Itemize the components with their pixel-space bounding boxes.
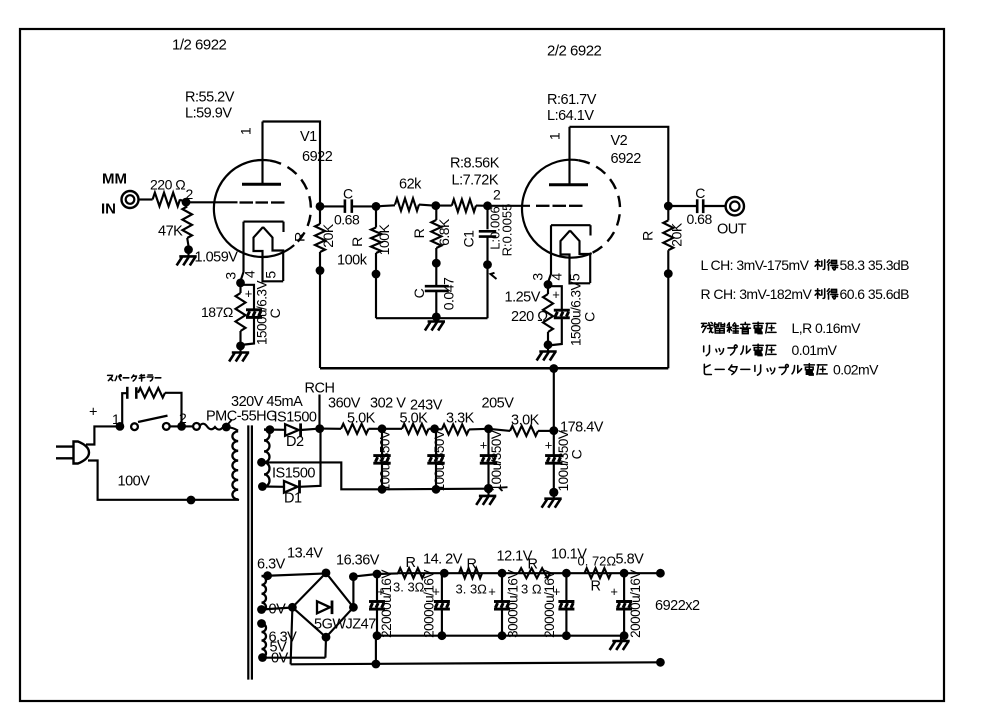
svg-text:+: +	[89, 405, 97, 421]
heater bottom rail	[291, 662, 661, 664]
HV center tap dot	[257, 458, 266, 467]
w2 top tap dot	[257, 619, 266, 628]
V1 cathode box top	[244, 221, 284, 223]
svg-text:47K: 47K	[158, 224, 183, 240]
svg-text:3. 3Ω: 3. 3Ω	[456, 582, 488, 597]
svg-text:RCH: RCH	[305, 381, 335, 397]
label C1 rot	[461, 230, 477, 248]
label hcap 4	[542, 570, 557, 638]
spark killer branch	[122, 393, 127, 426]
label 62k	[399, 177, 422, 193]
w1 top tap wire	[262, 573, 327, 576]
svg-text:3.0K: 3.0K	[511, 413, 540, 429]
V2 heater join	[570, 282, 591, 284]
label hcap 2	[422, 570, 437, 638]
resistor 20K V2	[663, 220, 673, 250]
heater cap 4 20000u/16V	[558, 573, 574, 640]
svg-text:100K: 100K	[376, 223, 392, 255]
label spark killer	[108, 375, 161, 381]
node C1 bottom dot	[483, 260, 492, 269]
node w1 top dot	[263, 571, 272, 580]
label R:55.2V	[185, 90, 235, 106]
V1 pin 4 label	[242, 270, 258, 278]
label V2	[611, 133, 628, 149]
V2 plate	[549, 127, 588, 185]
label L:59.9V	[185, 106, 232, 122]
svg-text:L,R 0.16mV: L,R 0.16mV	[792, 320, 862, 336]
switch blade	[138, 416, 168, 422]
ecap 1500u V1	[246, 310, 262, 318]
bridge R up wire	[353, 573, 398, 607]
tube V1 envelope solid arc	[214, 160, 294, 257]
svg-text:6.8K: 6.8K	[436, 218, 452, 246]
wire D1 to 360V node	[300, 429, 321, 487]
svg-text:C: C	[343, 186, 353, 202]
svg-text:C: C	[569, 449, 585, 459]
bridge B down wire	[324, 637, 327, 658]
tube V1 envelope dashed arc	[270, 161, 311, 246]
svg-text:3. 3Ω: 3. 3Ω	[393, 580, 425, 595]
svg-text:R:8.56K: R:8.56K	[450, 156, 500, 172]
wire C to 100K node	[352, 205, 376, 207]
wire 178V	[553, 369, 555, 429]
svg-text:1: 1	[238, 127, 254, 135]
bridge node B	[322, 633, 331, 642]
HV secondary winding	[264, 430, 270, 487]
svg-text:100V: 100V	[118, 474, 151, 490]
ground input	[177, 250, 197, 266]
svg-text:20000u/16V: 20000u/16V	[542, 570, 557, 638]
B+ rail	[320, 367, 668, 370]
wire jack to R220	[139, 198, 153, 200]
plus V2 cap	[552, 287, 560, 302]
V1 cathode box right stub	[282, 222, 284, 232]
ground V1 cathode	[229, 346, 249, 362]
bridge node T	[322, 569, 331, 578]
resistor 47K	[182, 207, 192, 247]
node bridge R top dot	[349, 572, 358, 581]
V2 heater left	[561, 231, 571, 285]
label R:8.56K	[450, 156, 500, 172]
label 3ohm c	[521, 582, 542, 597]
V2 pin 1 label	[547, 132, 563, 140]
svg-text:100u/350V: 100u/350V	[489, 430, 504, 491]
wire C1 to bottom rail	[486, 265, 488, 319]
ground interstage	[425, 318, 445, 330]
svg-text:5: 5	[263, 271, 279, 279]
text ripple	[704, 342, 838, 358]
V1 pin 5 label	[263, 271, 279, 279]
w2 0V wire	[263, 657, 326, 659]
label R h3	[528, 557, 538, 573]
label 47K	[158, 224, 183, 240]
svg-text:1.059V: 1.059V	[195, 250, 239, 266]
resistor 5.0K b	[402, 424, 428, 434]
svg-text:L:59.9V: L:59.9V	[185, 106, 232, 122]
bridge node L	[288, 603, 297, 612]
stray mark near C1	[491, 273, 497, 279]
label IS1500 D1	[272, 466, 315, 482]
label C (0.68 v1)	[343, 186, 353, 202]
svg-text:R: R	[591, 579, 601, 595]
RCH stub	[318, 395, 320, 429]
svg-text:14. 2V: 14. 2V	[423, 552, 463, 568]
svg-text:2: 2	[186, 186, 194, 202]
HV top tap wire	[264, 428, 285, 430]
resistor 8.56K	[452, 199, 476, 211]
wire V2 out to C	[668, 205, 697, 207]
text heater ripple	[704, 362, 879, 378]
filter cap 4 100u/350V	[545, 429, 562, 463]
wire grid V2	[488, 205, 531, 207]
label V1	[300, 129, 317, 145]
w1 bottom tap dot	[257, 605, 266, 614]
svg-text:100u/350V: 100u/350V	[556, 430, 571, 491]
wire V2 plate top	[570, 127, 669, 202]
label 0.68 v1	[334, 212, 360, 228]
label C 0.047	[411, 288, 427, 298]
label 1500u/6.3V V2	[569, 281, 584, 346]
switch contact a	[131, 423, 138, 430]
label 3.3ohm a	[393, 580, 425, 595]
svg-text:0.02mV: 0.02mV	[833, 362, 879, 378]
svg-text:0.68: 0.68	[687, 211, 713, 227]
node V1 cath bottom dot	[236, 342, 245, 351]
switch contact b	[163, 423, 170, 430]
wire r2-n243	[429, 428, 435, 430]
primary winding	[232, 431, 238, 499]
label sw 2	[179, 410, 187, 426]
wire 100Knode to 62k	[0, 0, 1, 1]
V1 plate	[242, 122, 281, 185]
heater cap 3 30000u/16V	[494, 573, 510, 640]
label L:64.1V	[547, 108, 594, 124]
svg-text:100u/350V: 100u/350V	[432, 430, 447, 491]
V1 grid dashes	[240, 201, 285, 203]
svg-text:L CH: 3mV-175mV: L CH: 3mV-175mV	[701, 257, 810, 273]
node 5.8V dot	[620, 569, 629, 578]
label C V2 cath	[582, 312, 598, 322]
label hcap 1	[379, 570, 394, 638]
plus hcap 3	[488, 584, 496, 599]
heater bottom rail end dot	[656, 658, 665, 667]
svg-text:PMC-55HG: PMC-55HG	[206, 409, 277, 425]
plus V1 cap	[245, 286, 253, 301]
svg-text:3: 3	[530, 273, 546, 281]
node V1 cathode dot	[236, 279, 245, 288]
svg-text:C: C	[411, 288, 427, 298]
svg-text:D2: D2	[286, 434, 304, 450]
resistor 20K V1	[315, 224, 325, 252]
node 47K gnd dot	[184, 245, 193, 254]
label 1500u/6.3V V1	[255, 280, 270, 345]
svg-text:30000u/16V: 30000u/16V	[506, 570, 521, 638]
filter cap 3 100u/350V	[480, 429, 497, 463]
input jack	[122, 191, 139, 208]
node 360V dot	[315, 424, 324, 433]
wire r-n302	[369, 428, 383, 430]
node V2 out dot	[664, 202, 673, 211]
node 100K bottom dot	[372, 270, 381, 279]
wire r3-n205	[469, 428, 489, 431]
wire plug top	[86, 426, 120, 444]
text R CH line	[701, 286, 910, 302]
wire n360-r	[320, 428, 341, 430]
label cap 1	[378, 430, 393, 491]
svg-text:MM: MM	[102, 171, 127, 188]
wire node2 to contact c	[182, 425, 194, 427]
label 0V w2	[271, 651, 289, 667]
spark killer cap	[127, 387, 136, 399]
bridge node R	[349, 603, 358, 612]
stray mark cap3	[499, 487, 508, 491]
output jack	[726, 197, 744, 215]
svg-text:22000u/16V: 22000u/16V	[379, 570, 394, 638]
wire R220 to node2	[180, 200, 186, 202]
filter cap 1 100u/350V	[373, 429, 390, 494]
resistor 62k	[376, 198, 432, 210]
label cap 3	[489, 430, 504, 491]
label 3.3K	[446, 411, 475, 427]
label hcap 5	[628, 570, 643, 638]
wire into 20K R1	[319, 202, 321, 224]
svg-text:0.047: 0.047	[441, 277, 457, 310]
wire plug bottom	[88, 461, 239, 500]
capacitor 0.047	[425, 286, 449, 291]
wire grid V1	[186, 201, 238, 203]
wire sw b to node2	[170, 425, 178, 427]
wire n205-r4	[489, 429, 511, 431]
V2 pin 5 label	[567, 273, 583, 281]
svg-text:6922: 6922	[611, 151, 642, 167]
node 100K dot	[372, 202, 381, 211]
label D2	[286, 434, 304, 450]
svg-text:R: R	[640, 231, 656, 241]
svg-text:R: R	[349, 237, 365, 247]
label 6.8K rot	[436, 218, 452, 246]
label 100k	[337, 253, 368, 269]
spark killer resistor	[138, 388, 165, 398]
plus cap 4	[545, 438, 553, 453]
svg-text:62k: 62k	[399, 177, 422, 193]
ground V2 cathode	[537, 345, 557, 361]
svg-text:3: 3	[223, 272, 239, 280]
node 12.1V dot	[498, 569, 507, 578]
label L:0.006	[488, 206, 503, 249]
label RCH2 none	[0, 0, 1, 1]
label 0.72ohm	[578, 554, 617, 569]
node 14.2V dot	[440, 569, 449, 578]
svg-text:302 V: 302 V	[370, 396, 406, 412]
center tap wire	[262, 462, 383, 489]
ground cap4	[542, 492, 562, 507]
label R h2	[467, 557, 477, 573]
label 178.4V	[560, 420, 604, 436]
heater cap 5 20000u/16V	[616, 573, 632, 640]
resistor 3.0K	[510, 426, 538, 436]
label 5GWJZ47	[314, 617, 376, 633]
wire 0.047 to bottom	[435, 291, 437, 318]
svg-text:58.3 35.3dB: 58.3 35.3dB	[840, 257, 910, 273]
svg-text:20000u/16V: 20000u/16V	[628, 570, 643, 638]
plug prong 1	[56, 445, 74, 447]
node 302V dot	[378, 424, 387, 433]
V1 cathode cap branch	[241, 285, 255, 345]
node 205V dot	[484, 424, 493, 433]
resistor 187 V1	[236, 283, 246, 346]
label 20K v1	[320, 223, 336, 248]
cap3 lower	[484, 463, 493, 493]
svg-text:C1: C1	[461, 230, 477, 248]
node 10.1V dot	[562, 569, 571, 578]
label 100V	[118, 474, 151, 490]
svg-text:+: +	[245, 286, 253, 301]
svg-text:OUT: OUT	[717, 222, 747, 238]
resistor 220ohm	[153, 193, 180, 207]
svg-text:2/2 6922: 2/2 6922	[547, 43, 602, 60]
node 243V dot	[430, 424, 439, 433]
svg-text:0.01mV: 0.01mV	[792, 342, 838, 358]
wire into 20K V2	[667, 202, 669, 220]
svg-text:C: C	[695, 185, 705, 201]
V2 cathode box left leg pin3	[548, 225, 551, 282]
label 3.0K	[511, 413, 540, 429]
label 14.2V	[423, 552, 463, 568]
label 0.68 v2	[687, 211, 713, 227]
label 3.3ohm b	[456, 582, 488, 597]
svg-text:IN: IN	[101, 201, 116, 218]
filter bottom rail	[382, 488, 489, 491]
node main rail dot	[372, 660, 381, 669]
plug prong 2	[56, 457, 74, 459]
resistor 3.3K	[442, 424, 469, 434]
svg-text:6.3V: 6.3V	[257, 557, 286, 573]
svg-text:L:7.72K: L:7.72K	[452, 173, 499, 189]
plus hcap 2	[432, 584, 440, 599]
label D1	[284, 491, 302, 507]
V2 cathode box right stub	[589, 225, 591, 235]
svg-text:C: C	[582, 312, 598, 322]
label cap 4	[556, 430, 571, 491]
wire n243-r3	[435, 428, 442, 431]
squiggle wire to xfmr	[199, 424, 226, 430]
svg-text:187Ω: 187Ω	[201, 304, 233, 320]
heater cap 2 20000u/16V	[434, 573, 450, 640]
label 302V	[370, 396, 406, 412]
label plus	[89, 405, 97, 421]
svg-text:20000u/16V: 20000u/16V	[422, 570, 437, 638]
svg-text:60.6 35.6dB: 60.6 35.6dB	[840, 286, 910, 302]
plus hcap 5	[610, 584, 618, 599]
wire 100K to bottom rail	[375, 274, 377, 318]
svg-text:IS1500: IS1500	[274, 410, 317, 426]
wire V1 plate top	[263, 122, 321, 203]
svg-text:1/2 6922: 1/2 6922	[172, 37, 227, 54]
svg-text:V2: V2	[611, 133, 628, 149]
wire C to OUT jack	[703, 205, 725, 207]
bridge diode 5GWJZ47	[317, 601, 332, 615]
svg-text:+: +	[480, 438, 488, 453]
text residual noise	[701, 320, 861, 336]
label C (0.68 v2)	[695, 185, 705, 201]
svg-text:3 Ω: 3 Ω	[521, 582, 542, 597]
w1 bottom wire	[262, 608, 293, 610]
node heater c1 dot	[373, 570, 382, 579]
svg-text:L:64.1V: L:64.1V	[547, 108, 594, 124]
heater winding 2	[262, 624, 267, 658]
ecap 1500u V2	[554, 310, 570, 318]
svg-text:V1: V1	[300, 129, 317, 145]
label 16.36V	[336, 553, 380, 569]
heater ladder bottom rail	[377, 635, 624, 637]
tube V2 envelope dashed arc	[579, 160, 620, 253]
wire 20K V2 to rail	[667, 250, 669, 368]
V1 heater right	[263, 227, 283, 281]
diode D2	[285, 423, 301, 436]
label 220ohm	[150, 177, 185, 193]
svg-text:6922x2: 6922x2	[655, 598, 700, 614]
AC plug	[74, 442, 90, 464]
V2 pin 4 label	[549, 273, 565, 281]
wire 6.8K to cap 0.047	[435, 263, 437, 286]
wire 20K to rail	[319, 252, 321, 368]
label R v2-20k	[640, 231, 656, 241]
label MM	[102, 171, 127, 188]
svg-text:R: R	[411, 228, 427, 238]
svg-text:4: 4	[242, 270, 258, 278]
svg-text:IS1500: IS1500	[272, 466, 315, 482]
ladder to main rail	[375, 636, 377, 664]
label 2/2 6922	[547, 43, 602, 60]
node rail 178V dot	[549, 364, 558, 373]
plus hcap 1	[377, 584, 385, 599]
label 0.047 rot	[441, 277, 457, 310]
label R h4	[591, 579, 601, 595]
resistor 5.0K a	[341, 424, 369, 434]
node bottom mid dot	[432, 313, 441, 322]
label C cap4	[569, 449, 585, 459]
label IS1500 D2	[274, 410, 317, 426]
wire node to C	[320, 205, 345, 207]
resistor 220 V2	[543, 285, 553, 345]
label 5.0K b	[400, 411, 429, 427]
label pin2 V2	[493, 187, 501, 203]
wire 8.56K to node2	[476, 205, 488, 207]
label RCH	[305, 381, 335, 397]
node sw2 dot	[177, 422, 186, 431]
label R 100K	[349, 237, 365, 247]
spark killer right lead	[165, 393, 182, 427]
V2 grid dashes	[536, 205, 583, 207]
V2 cathode box top	[551, 224, 591, 226]
label IN	[101, 201, 116, 218]
D1 anode wire	[262, 485, 284, 487]
bottom rail interstage	[376, 317, 488, 319]
ground cap3	[476, 489, 496, 505]
svg-text:220 Ω: 220 Ω	[150, 177, 185, 193]
label R:0.0055	[500, 204, 515, 257]
label 5V w2	[270, 640, 288, 656]
resistor 6.8K	[431, 206, 441, 263]
label 205V	[482, 396, 515, 412]
switch contact c	[193, 423, 200, 430]
tube V2 envelope solid arc	[522, 160, 592, 258]
wire n302-r2	[382, 428, 402, 430]
svg-text:5.8V: 5.8V	[616, 552, 645, 568]
heater rail	[398, 572, 660, 574]
svg-text:16.36V: 16.36V	[336, 553, 380, 569]
HV bottom tap dot	[258, 482, 267, 491]
